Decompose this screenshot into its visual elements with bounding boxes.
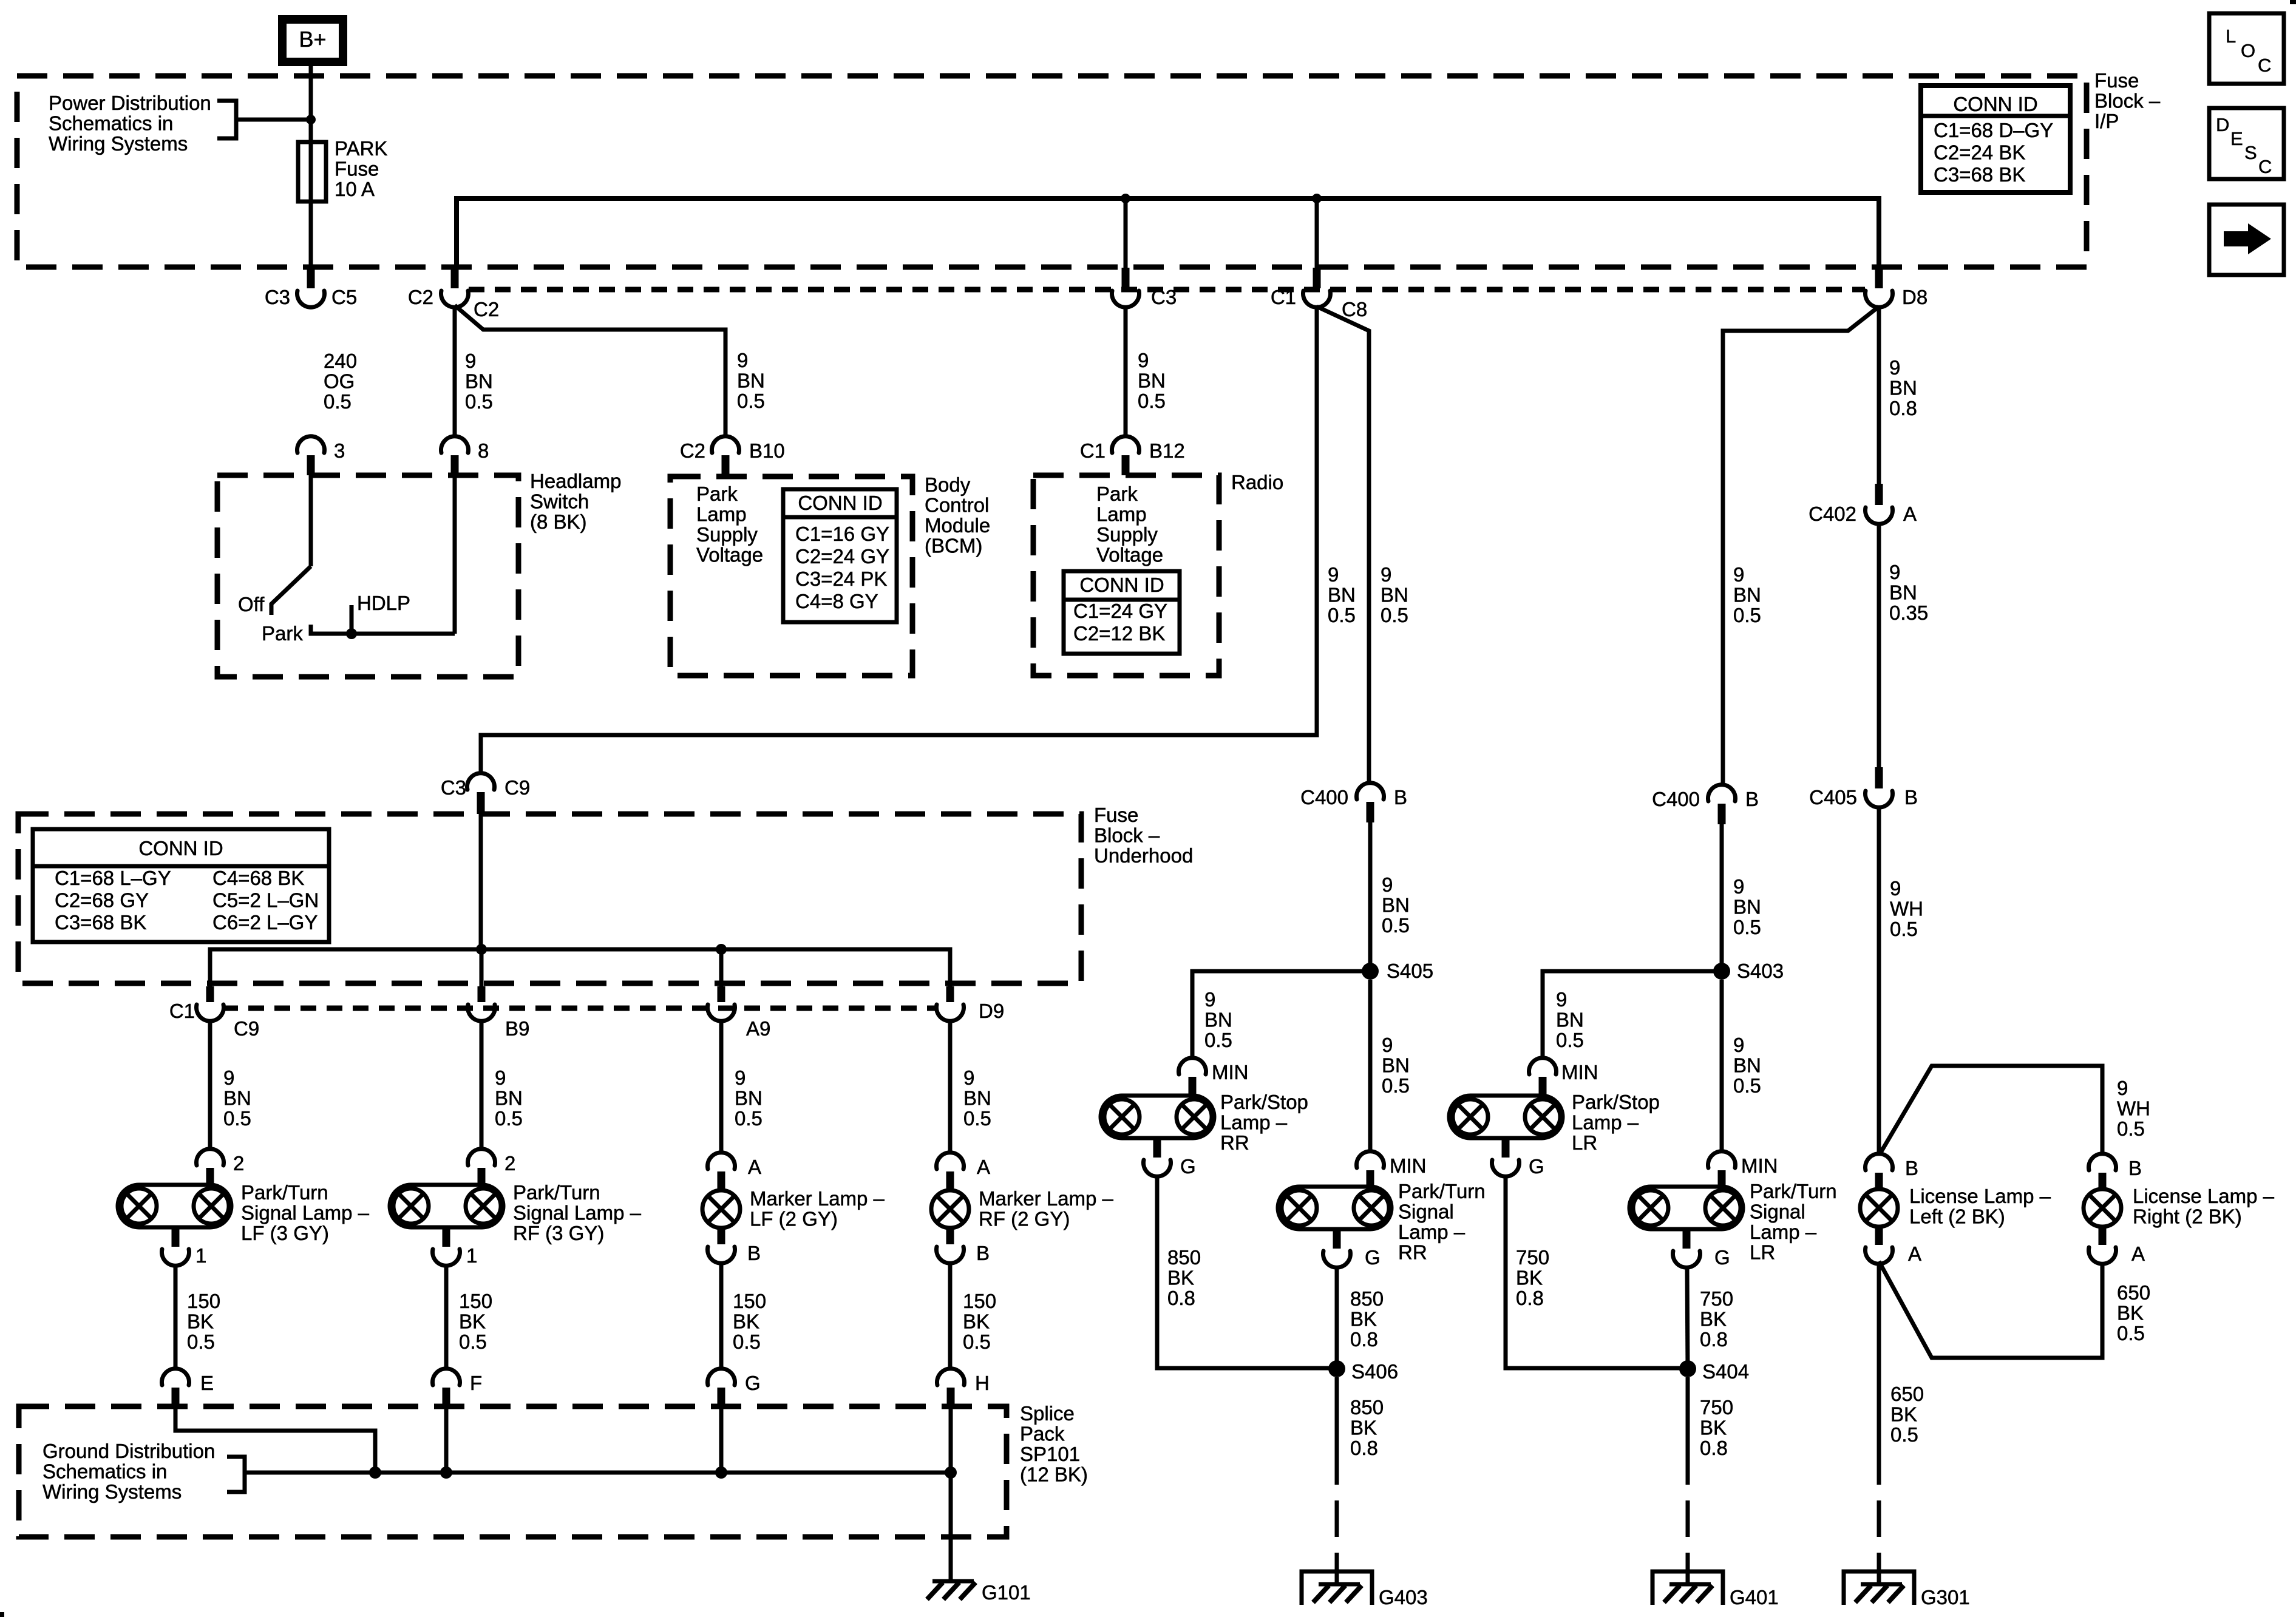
wire park/stop LR to S404 xyxy=(1506,1176,1688,1368)
svg-text:3: 3 xyxy=(334,439,345,462)
svg-text:BN: BN xyxy=(1889,581,1917,604)
svg-text:2: 2 xyxy=(233,1152,244,1175)
svg-text:Lamp –: Lamp – xyxy=(1220,1111,1288,1134)
wire B+ down through PARK fuse to C3/C5 xyxy=(309,66,313,268)
wire park/turn LR to S404 xyxy=(1687,1267,1688,1369)
label Marker Lamp LF xyxy=(750,1187,885,1230)
svg-text:C3: C3 xyxy=(1151,286,1177,308)
wire label 9 BN 0.8 xyxy=(1889,356,1917,419)
label A9 xyxy=(746,1017,770,1040)
wire marker LF to G xyxy=(719,1263,724,1367)
svg-text:Signal: Signal xyxy=(1750,1201,1805,1223)
wire C400 to S403 xyxy=(1720,824,1724,971)
dashed wire to G301 xyxy=(1877,1500,1881,1585)
svg-text:0.5: 0.5 xyxy=(1382,914,1410,937)
svg-text:0.5: 0.5 xyxy=(495,1107,523,1130)
connector C405 xyxy=(1866,767,1893,807)
label 1 xyxy=(195,1244,206,1267)
label B xyxy=(976,1242,990,1264)
svg-text:Fuse: Fuse xyxy=(1094,804,1138,826)
wire S403 branch to park/stop LR xyxy=(1543,971,1722,1056)
connector G park/turn RR xyxy=(1323,1229,1351,1267)
svg-text:BN: BN xyxy=(963,1087,991,1110)
label 2 xyxy=(233,1152,244,1175)
wire B9 to lamp RF xyxy=(480,1021,484,1148)
label G xyxy=(745,1372,761,1394)
connector C3 fuse block xyxy=(1112,268,1139,307)
wire label 9 WH 0.5 xyxy=(1890,877,1923,940)
svg-text:Underhood: Underhood xyxy=(1094,844,1193,867)
svg-text:G401: G401 xyxy=(1730,1586,1779,1609)
wire label 9 BN 0.5 B12 xyxy=(1138,349,1166,412)
svg-text:9: 9 xyxy=(1733,563,1744,586)
svg-text:750: 750 xyxy=(1516,1246,1549,1269)
label Park/Turn Signal Lamp RF xyxy=(513,1181,642,1244)
label C1 xyxy=(1080,439,1106,462)
svg-text:F: F xyxy=(470,1372,482,1394)
svg-text:0.5: 0.5 xyxy=(1382,1074,1410,1097)
svg-text:C3=68 BK: C3=68 BK xyxy=(55,911,146,934)
license lamp right bulb xyxy=(2084,1189,2121,1227)
label 2 xyxy=(504,1152,515,1175)
svg-text:Wiring Systems: Wiring Systems xyxy=(42,1480,182,1503)
junction dot F at bus xyxy=(440,1466,452,1479)
svg-text:9: 9 xyxy=(465,350,476,372)
wire A9 to marker LF xyxy=(719,1021,724,1151)
svg-text:2: 2 xyxy=(504,1152,515,1175)
svg-text:BK: BK xyxy=(1890,1403,1917,1426)
svg-text:9: 9 xyxy=(1733,875,1744,898)
svg-text:CONN ID: CONN ID xyxy=(1953,93,2037,115)
wire label 9 BN 0.5 branch LR xyxy=(1556,988,1584,1051)
wire lamp LF to E xyxy=(174,1266,178,1367)
svg-text:Lamp: Lamp xyxy=(1096,503,1147,526)
svg-text:(BCM): (BCM) xyxy=(925,535,982,557)
svg-text:0.5: 0.5 xyxy=(1556,1029,1584,1051)
wire label 150 BK 0.5 RF xyxy=(459,1290,492,1353)
license lamp left bulb xyxy=(1860,1189,1898,1227)
svg-text:C2=24 BK: C2=24 BK xyxy=(1934,141,2025,164)
svg-text:BN: BN xyxy=(1733,1054,1761,1077)
svg-text:LR: LR xyxy=(1750,1241,1775,1264)
wire label 9 BN 0.5 B10 xyxy=(737,349,765,412)
svg-text:Supply: Supply xyxy=(1096,523,1158,546)
svg-text:B: B xyxy=(1904,786,1918,808)
label E xyxy=(200,1372,214,1394)
svg-text:S404: S404 xyxy=(1702,1360,1749,1383)
wire C400 to S405 xyxy=(1368,822,1373,971)
label B xyxy=(1904,786,1918,808)
svg-text:Fuse: Fuse xyxy=(335,158,379,180)
svg-text:LR: LR xyxy=(1572,1131,1597,1154)
svg-text:9: 9 xyxy=(495,1066,506,1089)
label C402 xyxy=(1809,503,1856,525)
svg-text:0.5: 0.5 xyxy=(737,390,765,412)
connector E xyxy=(162,1369,189,1406)
svg-text:LF (3 GY): LF (3 GY) xyxy=(241,1222,329,1244)
svg-text:E: E xyxy=(2230,128,2243,149)
connector face dotted line I/P xyxy=(469,287,1865,293)
connector B12 xyxy=(1112,436,1140,475)
wire branch to license right B xyxy=(1880,1066,2102,1154)
connector C2/C2 xyxy=(441,268,469,307)
label Park/Stop Lamp LR xyxy=(1572,1091,1660,1154)
svg-text:C405: C405 xyxy=(1809,786,1857,808)
ground G301 enclosure xyxy=(1844,1571,1914,1605)
label MIN xyxy=(1390,1154,1427,1177)
svg-text:B10: B10 xyxy=(749,439,785,462)
fuse block I/P CONN ID table xyxy=(1921,86,2070,192)
label C9 xyxy=(234,1017,259,1040)
ground G403 xyxy=(1313,1584,1362,1602)
svg-text:B+: B+ xyxy=(299,27,326,52)
label C3 xyxy=(1151,286,1177,308)
switch Park contact xyxy=(311,625,455,634)
svg-text:B: B xyxy=(2128,1157,2142,1179)
svg-text:9: 9 xyxy=(1890,877,1901,900)
svg-text:0.5: 0.5 xyxy=(465,390,493,413)
svg-text:E: E xyxy=(200,1372,214,1394)
wire label 9 WH 0.5 right xyxy=(2117,1077,2150,1140)
svg-text:A: A xyxy=(2131,1242,2145,1265)
connector C400 second xyxy=(1708,785,1736,824)
svg-text:O: O xyxy=(2241,40,2255,61)
label B xyxy=(1905,1157,1918,1179)
connector pin 3 xyxy=(297,436,325,475)
label Park/Stop Lamp RR xyxy=(1220,1091,1308,1154)
svg-text:B9: B9 xyxy=(505,1017,529,1040)
svg-text:BN: BN xyxy=(1138,370,1166,392)
svg-text:Left (2 BK): Left (2 BK) xyxy=(1909,1205,2005,1228)
svg-text:Park: Park xyxy=(1096,483,1138,505)
connector B9 xyxy=(468,986,495,1021)
svg-text:D8: D8 xyxy=(1902,286,1927,308)
svg-text:S: S xyxy=(2244,142,2257,163)
svg-text:Switch: Switch xyxy=(530,490,589,513)
wire marker RF to H xyxy=(948,1263,953,1367)
wire label 650 BK 0.5 left xyxy=(1890,1383,1924,1446)
label C9 xyxy=(504,776,530,799)
label F xyxy=(470,1372,482,1394)
headlamp switch dashed box xyxy=(217,475,518,677)
svg-text:G: G xyxy=(1529,1155,1544,1178)
svg-text:150: 150 xyxy=(733,1290,766,1312)
ground G401 xyxy=(1664,1584,1713,1602)
switch common wire from pin 3 xyxy=(309,475,313,566)
label HDLP xyxy=(357,592,410,614)
label Radio xyxy=(1231,471,1283,493)
svg-text:BN: BN xyxy=(223,1087,251,1110)
connector MIN park/turn LR xyxy=(1708,1151,1736,1187)
svg-text:0.8: 0.8 xyxy=(1350,1328,1378,1351)
wire D8 to C402 xyxy=(1877,307,1881,485)
svg-text:B: B xyxy=(976,1242,990,1264)
svg-text:0.5: 0.5 xyxy=(1733,604,1761,626)
label A xyxy=(1903,503,1917,525)
marker lamp LF bulb xyxy=(702,1190,740,1228)
junction dot E at bus xyxy=(369,1466,381,1479)
svg-text:SP101: SP101 xyxy=(1020,1443,1080,1465)
wire label 150 BK 0.5 marker RF xyxy=(963,1290,996,1353)
label S405 xyxy=(1387,960,1433,982)
splice S406 xyxy=(1328,1360,1345,1377)
connector D9 xyxy=(937,986,964,1021)
wire C1 to lamp LF xyxy=(208,1021,212,1148)
svg-text:Park/Turn: Park/Turn xyxy=(1398,1180,1486,1202)
svg-text:150: 150 xyxy=(459,1290,492,1312)
switch HDLP stub xyxy=(350,605,354,634)
svg-text:G: G xyxy=(1714,1246,1730,1269)
svg-text:BN: BN xyxy=(1204,1009,1232,1031)
label H xyxy=(975,1372,990,1394)
svg-text:9: 9 xyxy=(737,349,748,371)
svg-text:BK: BK xyxy=(187,1310,214,1333)
BCM CONN ID table xyxy=(783,489,897,622)
svg-text:BN: BN xyxy=(1889,377,1917,399)
power feed B+ terminal box xyxy=(278,15,347,66)
svg-text:G403: G403 xyxy=(1379,1586,1428,1609)
connector A9 xyxy=(708,986,735,1021)
wire label 750 BK 0.8 below S404 xyxy=(1700,1396,1733,1459)
svg-text:850: 850 xyxy=(1350,1396,1384,1419)
label C8 xyxy=(1342,298,1367,320)
svg-text:C3=68 BK: C3=68 BK xyxy=(1934,163,2025,186)
text Park Lamp Supply Voltage BCM xyxy=(696,483,763,566)
svg-text:9: 9 xyxy=(1556,988,1567,1011)
svg-text:0.5: 0.5 xyxy=(1381,604,1408,626)
label G xyxy=(1365,1246,1381,1269)
svg-text:Power Distribution: Power Distribution xyxy=(49,92,211,114)
junction dot HDLP tap xyxy=(346,628,357,639)
svg-text:S406: S406 xyxy=(1351,1360,1398,1383)
fuse block I/P dashed box xyxy=(17,76,2087,267)
svg-text:G: G xyxy=(745,1372,761,1394)
DESC legend box xyxy=(2209,108,2284,179)
connector G park/turn LR xyxy=(1673,1229,1700,1267)
svg-text:0.5: 0.5 xyxy=(1138,390,1166,412)
svg-text:1: 1 xyxy=(195,1244,206,1267)
label C405 xyxy=(1809,786,1857,808)
svg-text:Schematics in: Schematics in xyxy=(42,1460,167,1483)
svg-text:9: 9 xyxy=(223,1066,234,1089)
connector B10 xyxy=(712,436,739,475)
svg-text:D: D xyxy=(2216,114,2229,135)
svg-text:License Lamp –: License Lamp – xyxy=(1909,1185,2051,1207)
svg-text:BN: BN xyxy=(737,370,765,392)
label Marker Lamp RF xyxy=(979,1187,1114,1230)
label D8 xyxy=(1902,286,1927,308)
bus wire fuse output along fuse block xyxy=(457,198,1879,268)
connector 1 lamp LF xyxy=(162,1227,189,1266)
svg-text:Signal Lamp –: Signal Lamp – xyxy=(513,1202,642,1224)
fuse block underhood dashed box xyxy=(18,814,1081,983)
svg-text:BK: BK xyxy=(733,1310,759,1333)
svg-text:RR: RR xyxy=(1220,1131,1249,1154)
svg-text:BN: BN xyxy=(1328,584,1356,606)
svg-text:0.5: 0.5 xyxy=(324,390,352,413)
label C400 xyxy=(1300,786,1348,808)
label G403 xyxy=(1379,1586,1428,1609)
svg-text:G: G xyxy=(1180,1155,1196,1178)
page mark bottom left xyxy=(0,1612,4,1617)
label PARK Fuse 10 A xyxy=(335,137,387,200)
svg-text:C1: C1 xyxy=(169,1000,195,1022)
wire D8 to C400 second xyxy=(1723,307,1879,784)
svg-text:G: G xyxy=(1365,1246,1381,1269)
svg-text:C3: C3 xyxy=(441,776,466,799)
connector A marker RF xyxy=(937,1153,964,1190)
label B10 xyxy=(749,439,785,462)
svg-text:(12 BK): (12 BK) xyxy=(1020,1463,1088,1486)
wire license right A to junction xyxy=(1879,1261,2102,1358)
power distribution note bracket xyxy=(217,101,307,138)
connector C1/C8 xyxy=(1303,268,1331,307)
svg-text:C4=68 BK: C4=68 BK xyxy=(212,867,304,889)
label G401 xyxy=(1730,1586,1779,1609)
svg-text:C1: C1 xyxy=(1271,286,1296,308)
svg-text:CONN ID: CONN ID xyxy=(798,492,882,514)
svg-text:9: 9 xyxy=(1889,356,1900,379)
radio dashed box xyxy=(1033,475,1219,676)
svg-text:Body: Body xyxy=(925,473,971,496)
wire label 750 BK 0.8 right xyxy=(1700,1287,1733,1351)
connector C3/C5 xyxy=(297,268,324,307)
fuse F1 PARK 10A xyxy=(298,142,326,202)
label C3 xyxy=(265,286,290,308)
svg-text:Park/Stop: Park/Stop xyxy=(1220,1091,1308,1113)
wire label 850 BK 0.8 left xyxy=(1167,1246,1201,1309)
svg-text:C1: C1 xyxy=(1080,439,1106,462)
svg-text:Park: Park xyxy=(262,622,303,645)
label Off xyxy=(238,593,265,615)
svg-text:C4=8 GY: C4=8 GY xyxy=(795,590,878,612)
svg-text:9: 9 xyxy=(1381,563,1391,586)
label C2 xyxy=(680,439,705,462)
wire C1 to underhood C9 xyxy=(481,305,1317,771)
wire label 850 BK 0.8 below S406 xyxy=(1350,1396,1384,1459)
note Power Distribution Schematics in Wiring Systems xyxy=(49,92,211,155)
svg-text:OG: OG xyxy=(324,370,355,393)
wire label 150 BK 0.5 LF xyxy=(187,1290,220,1353)
svg-text:G101: G101 xyxy=(982,1581,1031,1604)
svg-text:650: 650 xyxy=(1890,1383,1924,1405)
connector B marker RF xyxy=(937,1228,964,1263)
wire park/turn RR to S406 xyxy=(1335,1267,1339,1369)
svg-text:Park/Turn: Park/Turn xyxy=(513,1181,600,1204)
svg-text:Control: Control xyxy=(925,494,989,517)
wire label 750 BK 0.8 left xyxy=(1516,1246,1549,1309)
svg-text:150: 150 xyxy=(187,1290,220,1312)
wire F to bus xyxy=(444,1406,449,1473)
wire label 150 BK 0.5 marker LF xyxy=(733,1290,766,1353)
label G301 xyxy=(1921,1586,1970,1609)
svg-text:I/P: I/P xyxy=(2094,110,2119,132)
wire C2 to BCM B10 xyxy=(455,305,725,435)
svg-text:0.8: 0.8 xyxy=(1350,1437,1378,1459)
wire label 650 BK 0.5 right xyxy=(2117,1281,2150,1344)
svg-text:MIN: MIN xyxy=(1561,1061,1598,1083)
label MIN xyxy=(1561,1061,1598,1083)
label B xyxy=(1394,786,1407,808)
label Park/Turn Signal Lamp LF xyxy=(241,1181,370,1244)
svg-text:0.5: 0.5 xyxy=(459,1331,487,1353)
svg-text:C: C xyxy=(2258,55,2271,76)
ground G401 enclosure xyxy=(1652,1571,1723,1605)
park/turn signal lamp LR xyxy=(1629,1187,1743,1229)
wire license left A to G301 xyxy=(1877,1264,1881,1485)
label 1 xyxy=(466,1244,477,1267)
connector C3/C9 underhood xyxy=(467,773,495,814)
svg-text:B: B xyxy=(1745,788,1759,810)
junction dot power distribution tap xyxy=(306,115,316,124)
wire park/stop RR to S406 xyxy=(1157,1176,1337,1368)
svg-text:B: B xyxy=(747,1242,761,1264)
wire S405 branch to park/stop RR xyxy=(1192,971,1370,1056)
connector G splice xyxy=(708,1369,735,1406)
label C3 xyxy=(441,776,466,799)
svg-text:Radio: Radio xyxy=(1231,471,1283,493)
label A xyxy=(2131,1242,2145,1265)
wire label 9 BN 0.5 above S405 xyxy=(1382,873,1410,937)
wire label 9 BN 0.5 at D9 xyxy=(963,1066,991,1130)
park/turn signal lamp RF xyxy=(390,1185,503,1227)
svg-text:BN: BN xyxy=(1733,896,1761,918)
label Splice Pack SP101 (12 BK) xyxy=(1020,1402,1088,1486)
svg-text:C8: C8 xyxy=(1342,298,1367,320)
wire label 9 BN 0.5 at B9 xyxy=(495,1066,523,1130)
svg-text:Block –: Block – xyxy=(1094,824,1160,847)
label C2 right xyxy=(474,298,499,320)
wire S406 down xyxy=(1335,1377,1339,1485)
connector B marker LF xyxy=(708,1228,735,1263)
wire label 9 BN 0.5 at C1 xyxy=(223,1066,251,1130)
label S404 xyxy=(1702,1360,1749,1383)
svg-text:9: 9 xyxy=(735,1066,746,1089)
connector B license left xyxy=(1866,1154,1893,1190)
note Ground Distribution Schematics in Wiring Systems xyxy=(42,1440,215,1503)
svg-text:0.8: 0.8 xyxy=(1889,397,1917,419)
wire label 9 BN 0.5 below S405 xyxy=(1382,1034,1410,1097)
svg-text:BN: BN xyxy=(735,1087,763,1110)
svg-text:0.5: 0.5 xyxy=(963,1331,991,1353)
svg-text:WH: WH xyxy=(1890,898,1923,920)
label D9 xyxy=(979,1000,1004,1022)
label B9 xyxy=(505,1017,529,1040)
junction dot bus at B9 xyxy=(476,944,487,986)
svg-text:BN: BN xyxy=(1382,894,1410,917)
wire label 9 BN 0.5 C8 run xyxy=(1381,563,1408,626)
svg-text:C2: C2 xyxy=(680,439,705,462)
wire label 9 BN 0.5 above S403 xyxy=(1733,875,1761,938)
label Park/Turn Signal Lamp LR xyxy=(1750,1180,1837,1264)
svg-text:Marker Lamp –: Marker Lamp – xyxy=(979,1187,1114,1210)
svg-text:0.5: 0.5 xyxy=(1733,1074,1761,1097)
splice S403 xyxy=(1713,963,1730,980)
svg-text:C1=68 L–GY: C1=68 L–GY xyxy=(55,867,171,889)
wire D9 to marker RF xyxy=(948,1021,953,1151)
svg-text:750: 750 xyxy=(1700,1287,1733,1310)
connector 2 lamp LF xyxy=(197,1149,224,1185)
label Body Control Module (BCM) xyxy=(925,473,990,557)
svg-text:C2=24 GY: C2=24 GY xyxy=(795,545,889,568)
connector MIN park/stop RR xyxy=(1179,1058,1206,1096)
svg-text:Module: Module xyxy=(925,514,990,537)
svg-text:C400: C400 xyxy=(1652,788,1700,810)
svg-text:9: 9 xyxy=(1382,1034,1393,1056)
svg-text:Park: Park xyxy=(696,483,738,505)
svg-text:MIN: MIN xyxy=(1212,1061,1249,1083)
svg-text:RF (2 GY): RF (2 GY) xyxy=(979,1208,1070,1230)
